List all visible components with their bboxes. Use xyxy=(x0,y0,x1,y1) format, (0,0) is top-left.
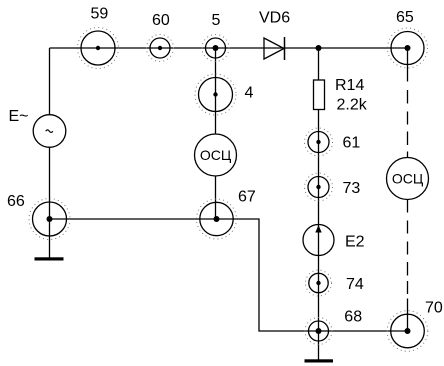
svg-text:2.2k: 2.2k xyxy=(337,97,368,114)
svg-text:73: 73 xyxy=(343,180,361,197)
svg-text:ОСЦ: ОСЦ xyxy=(392,170,424,186)
svg-text:66: 66 xyxy=(7,193,25,210)
svg-text:ОСЦ: ОСЦ xyxy=(200,147,232,163)
svg-text:VD6: VD6 xyxy=(259,10,290,27)
svg-text:4: 4 xyxy=(245,85,254,102)
svg-text:67: 67 xyxy=(238,189,256,206)
svg-text:60: 60 xyxy=(152,12,170,29)
svg-text:R14: R14 xyxy=(335,77,364,94)
svg-text:E2: E2 xyxy=(345,233,365,250)
svg-text:59: 59 xyxy=(91,5,109,22)
svg-text:74: 74 xyxy=(346,276,364,293)
svg-text:61: 61 xyxy=(343,135,361,152)
svg-text:68: 68 xyxy=(344,308,362,325)
svg-text:5: 5 xyxy=(212,12,221,29)
svg-text:65: 65 xyxy=(396,9,414,26)
svg-text:70: 70 xyxy=(425,300,443,317)
svg-text:E~: E~ xyxy=(9,108,29,125)
